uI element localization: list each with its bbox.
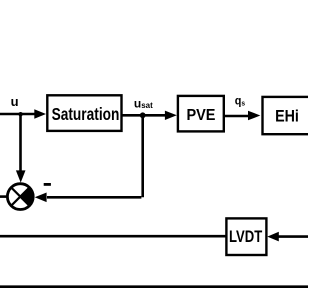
svg-text:u: u [11, 94, 19, 109]
block LVDT [226, 218, 266, 255]
svg-text:PVE: PVE [186, 106, 215, 124]
wire Saturation to PVE [122, 114, 166, 117]
arrowhead into summing junction from right [35, 193, 47, 203]
arrowhead into Saturation [34, 109, 46, 118]
svg-text:LVDT: LVDT [229, 227, 263, 246]
wire feedback vertical from u_sat node [141, 115, 144, 197]
summing junction X diagonals [11, 188, 29, 206]
arrowhead down into summing junction [16, 170, 26, 182]
wire input u from left edge [0, 113, 36, 116]
summing junction circle [7, 184, 33, 210]
wire feedback horizontal to summing junction [47, 196, 141, 199]
label minus sign [44, 183, 51, 186]
wire PVE to EHi [224, 115, 248, 118]
block Saturation [47, 95, 121, 131]
svg-text:EHi: EHi [275, 107, 299, 125]
node junction dot u_sat [140, 112, 146, 118]
svg-text:Saturation: Saturation [52, 105, 120, 124]
summing junction filled right sector [20, 187, 33, 205]
wire output of summing junction to left edge [0, 195, 8, 198]
arrowhead into LVDT [267, 232, 279, 242]
wire into LVDT from right edge [278, 235, 308, 238]
arrowhead into EHi [248, 111, 260, 121]
block EHi (cut off at right edge) [263, 97, 320, 134]
wire bottom horizontal line [0, 285, 308, 288]
node junction at branch [18, 112, 22, 116]
wire LVDT output to left edge [0, 235, 226, 238]
wire branch down to summing junction [19, 113, 22, 173]
arrowhead into PVE [165, 111, 177, 120]
block PVE [178, 96, 224, 131]
